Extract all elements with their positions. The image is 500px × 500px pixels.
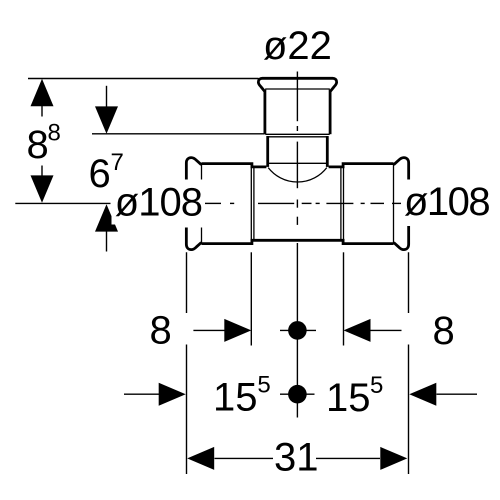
svg-text:6: 6 <box>89 152 111 196</box>
branch bead inner edge line <box>265 88 330 90</box>
tee fitting outline: branch bead (top) <box>258 78 336 91</box>
svg-text:7: 7 <box>111 149 124 176</box>
branch mouth edge line <box>268 162 328 164</box>
arrowhead down at line B <box>95 106 118 133</box>
body left bead inner edge line <box>201 164 203 243</box>
svg-text:ø22: ø22 <box>263 24 332 68</box>
node dot 1 <box>288 321 307 340</box>
svg-text:8: 8 <box>48 120 61 147</box>
dimension 6-7: upper shaft at x=106.5 <box>106 86 108 110</box>
arrowhead down at line C <box>31 175 54 202</box>
wire: horizontal run centerline (dash-dot) <box>205 202 401 204</box>
arrowhead up at line C right <box>95 204 118 231</box>
label 8 superscript 8 (with white backing) <box>23 117 64 168</box>
dimension row 8 left: line <box>193 329 225 331</box>
svg-text:8: 8 <box>433 309 455 353</box>
branch socket dome arc inside body <box>268 168 327 182</box>
arrowhead right, row3 right end <box>380 447 407 470</box>
line through node dot 2 <box>280 393 315 395</box>
dimension row 15.5 left: line <box>124 393 159 395</box>
wire: vertical branch centerline (dash-dot) <box>296 72 298 418</box>
extension line below left end <box>186 252 188 474</box>
branch socket wall right <box>329 90 332 135</box>
arrowhead left, row3 left end <box>187 447 214 470</box>
svg-text:ø108: ø108 <box>404 180 489 224</box>
dimension 6-7: lower shaft at x=106.5 <box>106 228 108 252</box>
branch plain wall right <box>326 136 329 167</box>
label 15 superscript 5 right <box>326 372 383 420</box>
wire: left label leader line C <box>15 202 110 204</box>
branch plain wall left <box>266 136 269 167</box>
body left tube stop lines <box>251 165 254 242</box>
arrowhead left, row1 right <box>344 319 371 342</box>
body bottom line with steps <box>202 240 394 243</box>
svg-text:8: 8 <box>27 123 49 167</box>
arrowhead up at top line <box>31 79 54 106</box>
body right bead <box>394 158 409 250</box>
branch tube stop lines <box>265 134 329 137</box>
body right tube stop lines <box>341 165 344 242</box>
svg-text:ø108: ø108 <box>115 181 202 225</box>
node dot 2 <box>288 385 307 404</box>
body left bead <box>186 158 201 250</box>
dimension row 31: left line <box>215 457 274 459</box>
label 6 superscript 7 <box>87 148 130 196</box>
svg-text:15: 15 <box>326 376 371 420</box>
extension line below right end <box>408 252 410 474</box>
svg-text:8: 8 <box>150 309 172 353</box>
arrowhead left, row2 right <box>409 383 436 406</box>
wire: extension line B <box>92 133 265 135</box>
body top line right with step <box>329 164 394 167</box>
dimension row 15.5 right: line <box>437 393 478 395</box>
extension line below left stop <box>250 252 252 345</box>
dimension row 8 right: line <box>371 329 402 331</box>
svg-text:5: 5 <box>257 372 270 399</box>
svg-text:31: 31 <box>274 436 319 480</box>
dimension row 31: right line <box>316 457 380 459</box>
body top line left socket with step <box>202 164 267 167</box>
wire: top extension line A <box>28 78 259 80</box>
label ø108 right (with white backing) <box>402 180 494 227</box>
arrowhead right, row1 left <box>224 319 251 342</box>
label 15 superscript 5 left <box>213 372 271 420</box>
label ø108 left (with white backing) <box>112 180 205 228</box>
line through node dot 1 <box>280 329 316 331</box>
extension line below right stop <box>343 252 345 345</box>
dimension 8-8: shaft at x=42 <box>41 100 43 180</box>
body right bead inner edge line <box>393 164 395 243</box>
svg-text:5: 5 <box>370 372 383 399</box>
arrowhead right, row2 left <box>159 383 186 406</box>
branch socket wall left <box>263 90 266 135</box>
svg-text:15: 15 <box>213 376 258 420</box>
